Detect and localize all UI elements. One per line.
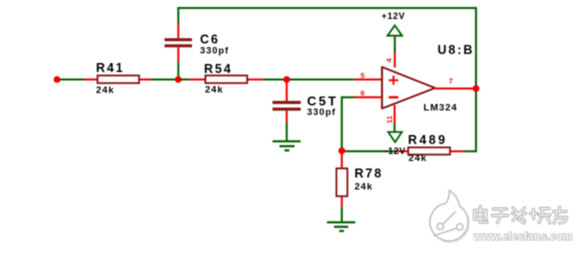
wire R41 to node A [152, 79, 178, 81]
wire R54 to node B [263, 79, 287, 81]
pin 7 output wire [435, 77, 476, 89]
node A junction R41/R54/C6 [175, 76, 182, 83]
pin 11 [385, 105, 395, 124]
resistor R54 [178, 62, 262, 96]
capacitor C5T [273, 80, 339, 141]
pin 4 [385, 53, 395, 68]
ground below R78 [327, 222, 355, 231]
wire feedback right vertical [475, 8, 477, 152]
svg-text:7: 7 [449, 77, 453, 86]
svg-text:LM324: LM324 [424, 102, 458, 113]
svg-text:24k: 24k [355, 182, 374, 193]
svg-text:11: 11 [385, 116, 394, 124]
svg-text:C6: C6 [200, 33, 220, 47]
svg-text:24k: 24k [96, 85, 115, 96]
svg-text:330pf: 330pf [307, 107, 336, 117]
watermark text www.elecfans.com [473, 231, 573, 243]
node IN (left terminal dot) [54, 76, 61, 83]
wire IN to R41 [57, 79, 85, 81]
power +12V [382, 11, 406, 53]
power -12V [385, 124, 406, 156]
node B junction R54/C5T/pin5 [283, 76, 290, 83]
svg-text:330pf: 330pf [200, 46, 229, 56]
svg-text:-12V: -12V [385, 146, 406, 156]
node OUT output junction [473, 85, 480, 92]
svg-text:R54: R54 [204, 62, 233, 76]
resistor R41 [85, 61, 153, 96]
op-amp U8:B [382, 43, 474, 113]
svg-text:+12V: +12V [382, 11, 406, 21]
wire node B to op-amp pin 5 [287, 71, 382, 80]
watermark text 电子发烧友 (drawn strokes) [475, 207, 567, 224]
svg-text:24k: 24k [409, 153, 428, 164]
svg-text:R78: R78 [355, 167, 384, 181]
wire pin 6 to node C [342, 89, 382, 151]
svg-text:5: 5 [361, 71, 365, 80]
svg-text:www.elecfans.com: www.elecfans.com [473, 231, 573, 243]
capacitor C6 [165, 8, 230, 80]
ground below C5T [273, 141, 301, 150]
svg-text:24k: 24k [205, 85, 224, 96]
resistor R78 [336, 151, 383, 222]
svg-text:U8:B: U8:B [438, 43, 475, 57]
svg-text:R41: R41 [96, 61, 125, 75]
node C junction pin6/R489/R78 [338, 147, 345, 154]
svg-text:6: 6 [361, 89, 365, 98]
resistor R489 [342, 133, 477, 164]
svg-text:R489: R489 [408, 133, 447, 147]
svg-text:4: 4 [385, 58, 394, 63]
watermark logo elecfans [430, 191, 469, 243]
wire feedback top rail [177, 7, 477, 9]
